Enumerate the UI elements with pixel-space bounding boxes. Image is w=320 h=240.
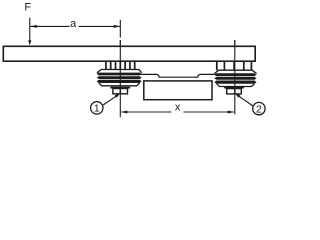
right mount disc stack bottom: [217, 84, 255, 87]
callout 1 leader line: [103, 95, 117, 105]
right mount washer plate: [224, 87, 244, 89]
right mount disc 2: [214, 77, 256, 80]
dimension x line right segment: [184, 111, 234, 113]
left mount disc stack bottom: [99, 83, 140, 86]
callout 1 balloon circle: [91, 102, 103, 114]
centerline left mount: [119, 40, 121, 117]
force F arrowhead: [28, 40, 31, 45]
svg-text:F: F: [24, 2, 31, 14]
right mount ribs: [217, 62, 252, 71]
dimension a line right segment: [79, 25, 120, 27]
left mount ribs: [106, 62, 135, 70]
left mount disc 3: [97, 80, 142, 83]
force F arrow line: [29, 18, 31, 42]
left mount nut: [113, 89, 128, 94]
beam: [3, 46, 255, 61]
svg-text:1: 1: [94, 103, 100, 115]
right mount disc 1: [214, 73, 256, 76]
callout 1 leader arrowhead: [115, 93, 120, 97]
svg-text:2: 2: [256, 103, 262, 115]
callout 2 leader arrowhead: [235, 93, 240, 98]
dimension x right arrowhead: [228, 111, 235, 114]
left mount bolt through nut: [119, 89, 121, 94]
middle bracket box: [144, 81, 212, 100]
left mount washer plate: [110, 87, 130, 89]
centerline right mount: [234, 40, 236, 114]
callout 2 leader line: [238, 95, 253, 106]
svg-text:a: a: [70, 18, 77, 30]
dimension a line left segment: [30, 25, 70, 27]
right mount disc 3: [214, 81, 256, 84]
right mount disc stack top: [214, 70, 256, 73]
dimension a left arrowhead: [30, 25, 37, 28]
left mount disc stack top: [97, 70, 142, 73]
left mount disc 1: [97, 73, 142, 76]
left mount disc 2: [97, 76, 142, 79]
dimension x line left segment: [121, 111, 171, 113]
callout 2 balloon circle: [253, 102, 265, 114]
dimension a right arrowhead: [114, 25, 121, 28]
centerline right mount through beam: [234, 40, 236, 61]
extension line above beam at left mount: [119, 20, 121, 38]
right mount bolt through nut: [234, 89, 236, 94]
support saddle profile between mounts: [140, 74, 217, 77]
right mount nut: [227, 89, 242, 94]
dimension x left arrowhead: [121, 111, 128, 114]
centerline left mount through beam: [119, 40, 121, 61]
svg-text:x: x: [175, 102, 181, 114]
